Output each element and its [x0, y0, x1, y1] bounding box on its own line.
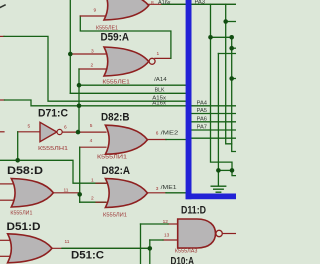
labels: part numbers	[10, 26, 197, 255]
node ground tee	[216, 168, 221, 173]
svg-text:D11:D: D11:D	[181, 205, 206, 217]
svg-text:D51:C: D51:C	[71, 250, 104, 262]
svg-text:PA3: PA3	[195, 0, 206, 6]
gate D59:A body (top partial gate)	[104, 0, 149, 20]
pin 2 D59:A input wire + V2 descender	[79, 68, 106, 70]
left edge diagonal stub	[0, 5, 5, 8]
gate D58:D	[11, 179, 53, 208]
wire A15x: left stub, corner at x48, down, right to blue border	[0, 35, 4, 37]
svg-text:A16x: A16x	[152, 100, 166, 106]
wire along y160 to D82:A pin1 riser	[0, 160, 106, 183]
node D51 output/pin13 riser	[148, 246, 153, 251]
wire vertical V4r x231.7	[232, 37, 236, 151]
wire Vc x218.4 with top branch	[218, 53, 236, 55]
svg-text:К555ЛЕ1: К555ЛЕ1	[96, 26, 118, 32]
svg-text:2: 2	[91, 63, 94, 69]
svg-text:D82:B: D82:B	[101, 111, 130, 123]
pin 1 D82:A red part	[96, 182, 106, 184]
pin 9 top gate input	[80, 15, 106, 17]
node A16x/V2	[77, 104, 82, 109]
wire D58:D output pin 11	[53, 192, 79, 194]
labels: net names	[152, 0, 207, 191]
svg-text:К555ЛИ1: К555ЛИ1	[10, 210, 32, 216]
svg-text:12: 12	[163, 219, 169, 225]
pin 4 D82:B wire and descender to D82:A pin2	[80, 146, 106, 148]
gate D11:D nand	[178, 219, 216, 248]
wire D71:C input net from left edge	[0, 131, 4, 133]
svg-text:BLK: BLK	[155, 88, 165, 94]
wire BLK from V1 corner to blue	[70, 92, 186, 94]
svg-text:5: 5	[28, 124, 31, 130]
svg-text:PA4: PA4	[197, 101, 207, 107]
wire D11:D pin12 net with descender	[168, 223, 178, 225]
svg-text:К555ЛИ1: К555ЛИ1	[103, 213, 127, 219]
bubble D59:A output	[149, 58, 155, 64]
svg-text:D82:A: D82:A	[102, 165, 131, 177]
wire D51:D output to junction with pin13 riser	[52, 247, 150, 249]
wire y48.2 stub	[232, 47, 236, 49]
svg-text:К555ЛН1: К555ЛН1	[38, 146, 68, 152]
wire PA5	[191, 113, 236, 115]
svg-text:/ME2: /ME2	[161, 130, 179, 136]
svg-text:К555ЛЕ1: К555ЛЕ1	[102, 80, 130, 86]
wire /ME1 D82:A output to blue	[148, 192, 167, 194]
node y37.3 left	[208, 35, 213, 40]
svg-text:4: 4	[90, 138, 93, 144]
svg-text:2: 2	[91, 196, 94, 202]
op-amp triangle D71:C inverter	[40, 122, 57, 141]
wire D11:D output	[222, 233, 236, 235]
svg-text:6: 6	[64, 124, 67, 130]
svg-text:A16x: A16x	[158, 0, 171, 6]
svg-text:11: 11	[65, 239, 70, 245]
ground	[217, 170, 219, 185]
node D58 output	[77, 192, 82, 197]
svg-text:К555ЛИ1: К555ЛИ1	[97, 155, 127, 161]
wire L1 vertical x225.7 with staircase	[226, 4, 232, 144]
svg-text:D51:D: D51:D	[7, 221, 41, 233]
svg-text:3: 3	[91, 49, 94, 55]
bubble D11:D output	[216, 230, 222, 236]
sheet border blue	[186, 0, 192, 199]
bubble D71:C output	[57, 129, 62, 134]
svg-text:D59:A: D59:A	[101, 32, 130, 44]
wire PA6	[191, 121, 236, 123]
gate D82:B	[105, 125, 147, 154]
wire y170.4 cluster	[218, 169, 232, 171]
labels: reference designators	[7, 32, 207, 264]
node y78.5	[229, 76, 234, 81]
wire /A14 from V2 tee to blue	[79, 84, 187, 86]
wire vertical V1 from top to BLK	[69, 0, 71, 93]
wire D71:C output to D82:B pin5	[62, 131, 106, 133]
wire ME2 continuation right of blue	[191, 137, 236, 139]
svg-text:D10:A: D10:A	[171, 256, 195, 264]
node L1 y21.5	[223, 19, 228, 24]
wire y37.3	[211, 36, 232, 38]
node y37.3 right	[229, 35, 234, 40]
gate D82:A	[105, 179, 147, 208]
labels: pin numbers	[28, 0, 170, 245]
node D71 output	[76, 130, 81, 135]
svg-text:3: 3	[156, 186, 159, 192]
svg-text:13: 13	[164, 233, 170, 239]
svg-text:1: 1	[91, 178, 94, 184]
node cluster right	[230, 168, 235, 173]
svg-text:11: 11	[64, 188, 69, 194]
node y48.2	[229, 46, 234, 51]
wire /ME2 D82:B output to blue	[148, 139, 167, 141]
wire PA7	[191, 129, 236, 131]
node pin3/V1	[68, 52, 73, 57]
gate D51:D	[8, 234, 52, 263]
gate D59:A	[104, 47, 149, 76]
pin 3 D59:A input wire	[70, 53, 106, 55]
wire D59 output riser to top gate input net	[155, 57, 171, 59]
svg-text:/A14: /A14	[154, 77, 167, 83]
svg-text:1: 1	[157, 51, 160, 57]
wire vertical Va x210.5 with arm to bottom right exit	[211, 4, 237, 175]
D58:D input stubs	[0, 183, 14, 185]
svg-text:PA6: PA6	[197, 117, 207, 123]
node /A14/V2	[77, 83, 82, 88]
wire D11:D pin13 net with descender	[163, 239, 178, 241]
wire y78.5 stub	[232, 78, 236, 80]
svg-text:К555ЛА3: К555ЛА3	[175, 249, 198, 255]
svg-text:PA7: PA7	[197, 125, 207, 131]
svg-text:D58:D: D58:D	[7, 165, 43, 177]
svg-text:PA5: PA5	[197, 108, 207, 114]
wire A16x lower: left pin stub, jog, to blue and beyond as PA4	[0, 99, 5, 101]
svg-text:5: 5	[90, 123, 93, 129]
wire net A16x top: gate9 output to right edge	[149, 3, 236, 5]
svg-text:9: 9	[94, 8, 97, 14]
node y160 tee	[15, 158, 20, 163]
svg-text:/ME1: /ME1	[161, 185, 177, 191]
svg-text:D71:C: D71:C	[38, 108, 68, 120]
svg-text:8: 8	[151, 0, 154, 6]
svg-text:6: 6	[156, 131, 159, 137]
D51:D input stubs	[0, 239, 10, 241]
